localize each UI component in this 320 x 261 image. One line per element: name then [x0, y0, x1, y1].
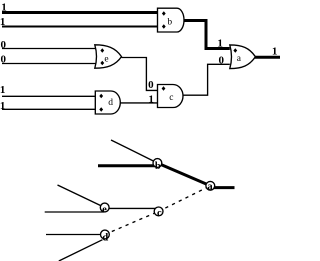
graph edge input diagonal into node e: [58, 185, 105, 208]
and-gate c: [158, 85, 184, 108]
svg-text:d: d: [102, 232, 108, 243]
graph node e: [100, 203, 109, 215]
svg-text:e: e: [104, 55, 108, 65]
svg-text:b: b: [155, 161, 161, 172]
svg-text:1: 1: [272, 46, 278, 58]
graph edge input diagonal into node d: [59, 240, 103, 261]
graph edge input diagonal into node b: [111, 140, 157, 163]
graph node b: [153, 159, 162, 172]
graph node c: [154, 207, 163, 219]
svg-text:e: e: [102, 204, 107, 215]
graph edge b to a (thick): [157, 163, 210, 186]
wire row6 to gate d: [2, 108, 96, 110]
svg-text:b: b: [167, 17, 172, 27]
graph edge input horizontal into node b (thick): [98, 164, 156, 167]
svg-text:1: 1: [0, 100, 5, 112]
svg-text:d: d: [108, 98, 113, 108]
wire row3 to gate e: [2, 48, 96, 50]
svg-text:a: a: [207, 182, 213, 193]
wire row1 thick to gate b: [2, 11, 158, 14]
wire gate b output to gate a (thick): [184, 21, 230, 49]
svg-text:1: 1: [217, 37, 223, 49]
wire gate e output to gate c: [122, 58, 158, 91]
or-gate a: [230, 45, 256, 69]
graph edge input horizontal into node d: [46, 234, 105, 236]
svg-text:c: c: [157, 208, 162, 219]
wire row2 to gate b: [2, 26, 158, 28]
svg-text:c: c: [169, 93, 173, 103]
and-gate d: [95, 91, 120, 114]
graph edge a output (thick): [210, 186, 234, 189]
wire gate c output to gate a: [183, 64, 230, 95]
and-gate b: [158, 8, 185, 32]
graph node d: [101, 230, 110, 243]
graph edge d to c (dashed): [105, 211, 159, 234]
graph edge e to c: [104, 207, 158, 209]
wire gate d output to gate c: [120, 102, 157, 104]
or-gate e: [95, 45, 122, 68]
wire row5 to gate d: [2, 95, 96, 97]
graph node a: [206, 181, 215, 192]
wire circuit output (thick): [255, 56, 280, 59]
graph edge c to a (dashed): [159, 186, 211, 212]
svg-text:1: 1: [148, 93, 154, 105]
svg-text:0: 0: [148, 79, 154, 91]
svg-text:1: 1: [0, 84, 5, 96]
svg-text:0: 0: [1, 39, 7, 51]
graph edge input horizontal into node e: [45, 211, 104, 213]
wire row4 to gate e: [2, 63, 96, 65]
svg-text:0: 0: [219, 54, 225, 66]
